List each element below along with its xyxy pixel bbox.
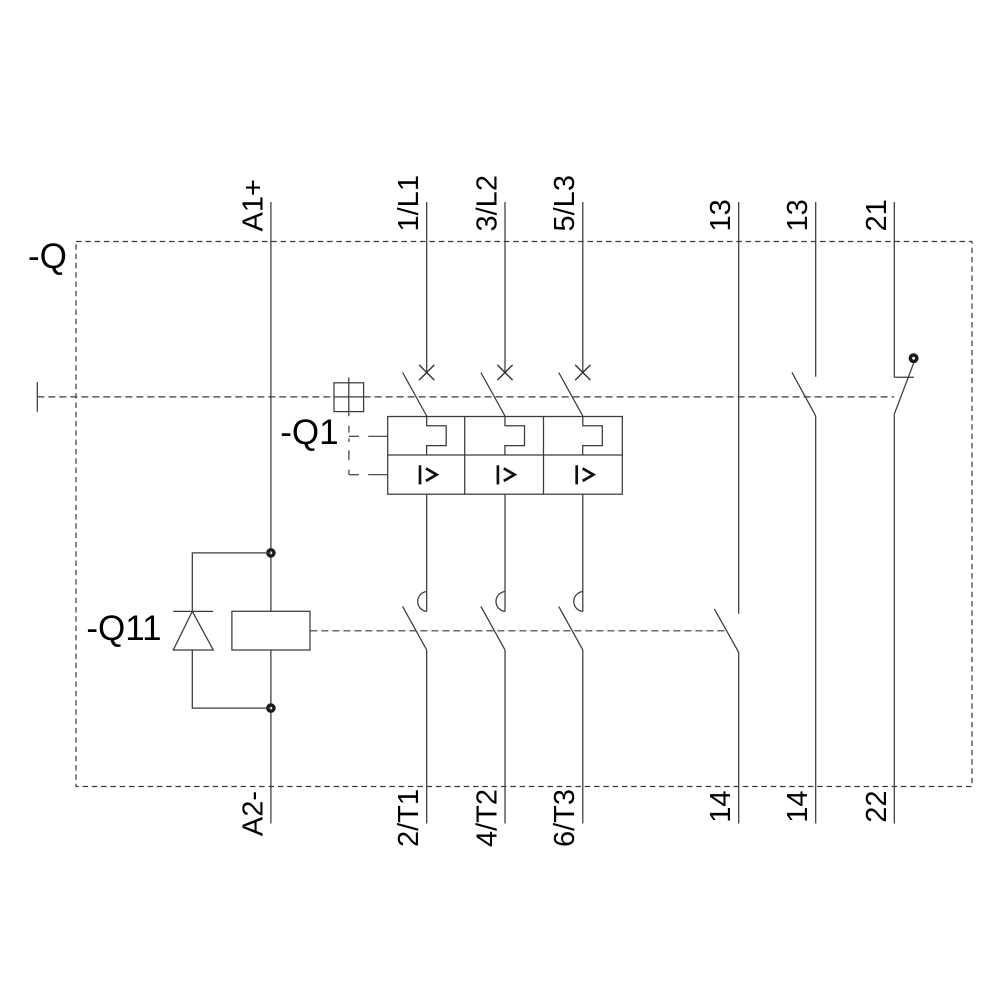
aux contact left blade (714, 609, 738, 652)
coil -Q11 (232, 611, 310, 650)
linkage stub to latch row (349, 435, 359, 437)
NC contact pivot circle (909, 353, 919, 363)
latch cell 3 (583, 417, 603, 456)
wire branch from suppressor (bottom) (192, 650, 271, 708)
svg-text:6/T3: 6/T3 (549, 789, 581, 847)
svg-text:4/T2: 4/T2 (471, 789, 503, 847)
latch cell 1 (427, 417, 447, 456)
svg-text:A1+: A1+ (237, 179, 269, 231)
node junction upper (266, 548, 276, 558)
pole 1 breaker hook (418, 592, 427, 612)
pole 2 top blade (481, 373, 505, 417)
manual operator square (334, 383, 364, 412)
svg-text:1/L1: 1/L1 (393, 175, 425, 231)
pole 2 wire mid (504, 494, 506, 611)
svg-text:-Q: -Q (28, 237, 67, 276)
svg-text:A2-: A2- (237, 791, 269, 836)
pole 2 lower blade (481, 606, 505, 650)
pole 3 top blade (559, 373, 583, 417)
NC contact 21-22 fixed wire (893, 202, 895, 377)
pole 2 wire bottom 4/T2 (504, 650, 506, 824)
pole 2 breaker hook (496, 592, 505, 612)
pole 3 breaker hook (574, 592, 583, 612)
actuator tick (left) (36, 382, 38, 412)
aux contact left lower wire 14 (738, 652, 740, 823)
node junction lower (266, 703, 276, 713)
svg-text:22: 22 (861, 791, 893, 823)
svg-text:-Q11: -Q11 (86, 609, 161, 648)
pole 1 wire bottom 2/T1 (426, 650, 428, 824)
aux contact left 13-14 fixed wire (738, 202, 740, 614)
svg-text:5/L3: 5/L3 (549, 175, 581, 231)
svg-text:2/T1: 2/T1 (393, 789, 425, 847)
enclosure -Q dashed boundary (76, 242, 972, 787)
mechanical linkage dashed line lower (coil to contacts) (310, 630, 724, 632)
pole 2 wire top 3/L2 (504, 202, 506, 373)
pole 1 top contact X (419, 365, 434, 380)
overload symbol I> cell 1 (419, 465, 422, 484)
svg-text:21: 21 (861, 199, 893, 231)
wire branch to suppressor (top) (192, 553, 271, 612)
wire A1-A2 vertical (270, 202, 272, 824)
overload symbol I> cell 3 (575, 465, 578, 484)
svg-text:13: 13 (705, 199, 737, 231)
svg-text:14: 14 (705, 791, 737, 823)
svg-text:3/L2: 3/L2 (471, 175, 503, 231)
pole 3 wire mid (582, 494, 584, 611)
diode (surge suppressor) (173, 610, 213, 612)
NC contact blade (894, 363, 914, 414)
pole 3 lower blade (559, 606, 583, 650)
aux contact mid lower wire 14 (815, 416, 817, 824)
pole 1 wire top 1/L1 (426, 202, 428, 373)
pole 2 top contact X (497, 365, 512, 380)
aux contact mid 13-14 fixed wire (815, 202, 817, 377)
svg-text:14: 14 (782, 791, 814, 823)
mechanical linkage dashed line upper (37, 396, 334, 398)
svg-text:-Q1: -Q1 (280, 413, 338, 452)
pole 3 wire bottom 6/T3 (582, 650, 584, 824)
pole 1 top blade (403, 373, 427, 417)
svg-text:13: 13 (782, 199, 814, 231)
pole 1 lower blade (403, 606, 427, 650)
overload symbol I> cell 2 (497, 465, 500, 484)
breaker unit -Q1 box (388, 417, 623, 495)
aux contact mid blade (792, 372, 816, 416)
latch cell 2 (505, 417, 525, 456)
pole 1 wire mid (426, 494, 428, 611)
linkage stub to overload row (349, 474, 359, 476)
pole 3 wire top 5/L3 (582, 202, 584, 373)
NC contact lower wire 22 (893, 415, 895, 824)
NC contact T stub (894, 376, 914, 378)
pole 3 top contact X (575, 365, 590, 380)
linkage dashes square to breaker unit (vertical) (348, 426, 350, 433)
